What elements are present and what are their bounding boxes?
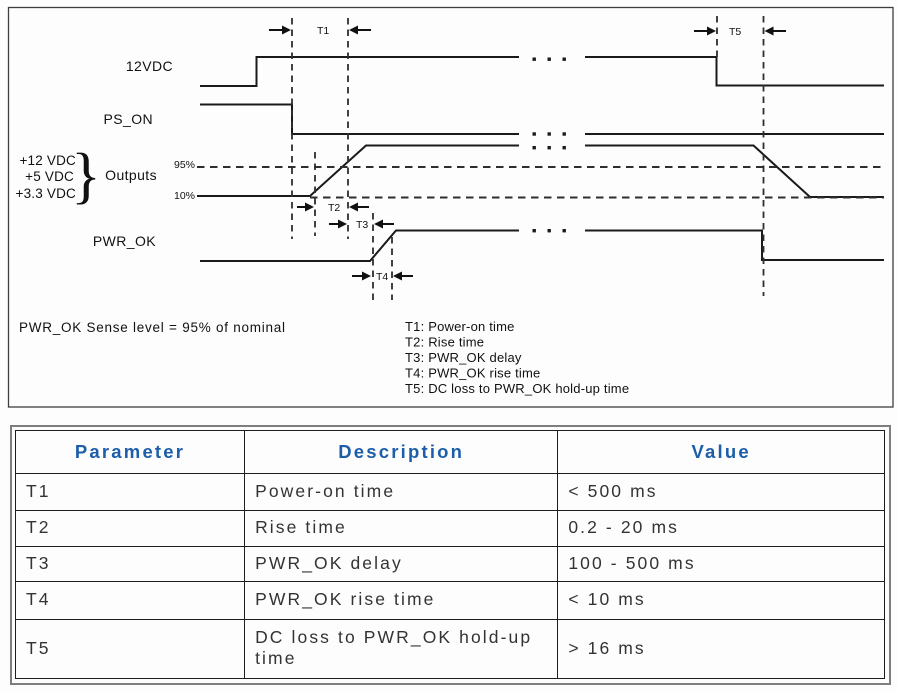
svg-text:T3: PWR_OK delay: T3: PWR_OK delay: [405, 350, 522, 365]
svg-text:T4: PWR_OK rise time: T4: PWR_OK rise time: [405, 366, 540, 381]
svg-text:T5: DC loss to PWR_OK hold-up: T5: DC loss to PWR_OK hold-up time: [405, 381, 629, 396]
svg-text:PWR_OK Sense level = 95% of no: PWR_OK Sense level = 95% of nominal: [19, 320, 286, 335]
svg-text:PS_ON: PS_ON: [104, 111, 153, 127]
svg-text:T2: Rise time: T2: Rise time: [405, 335, 484, 350]
svg-text:T5: T5: [729, 26, 741, 38]
svg-text:12VDC: 12VDC: [126, 58, 173, 74]
svg-text:T3: T3: [356, 219, 368, 231]
svg-text:10%: 10%: [174, 190, 195, 202]
svg-text:T2: T2: [328, 202, 340, 214]
svg-text:T1: T1: [317, 25, 329, 37]
svg-text:Outputs: Outputs: [105, 167, 157, 183]
svg-text:95%: 95%: [174, 159, 195, 171]
svg-text:PWR_OK: PWR_OK: [93, 233, 156, 249]
svg-text:+12 VDC: +12 VDC: [19, 153, 76, 168]
svg-text:+3.3 VDC: +3.3 VDC: [15, 186, 76, 201]
svg-text:T1: Power-on time: T1: Power-on time: [405, 319, 515, 334]
svg-text:}: }: [71, 142, 101, 210]
svg-text:T4: T4: [376, 271, 388, 283]
svg-text:+5 VDC: +5 VDC: [25, 169, 74, 184]
